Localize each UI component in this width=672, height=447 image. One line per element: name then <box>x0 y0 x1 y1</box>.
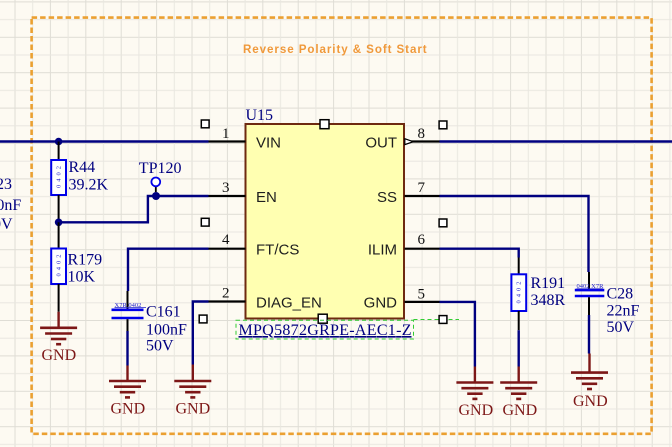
svg-text:GND: GND <box>459 402 494 419</box>
no-connect marker square B <box>201 218 209 226</box>
svg-text:100nF: 100nF <box>146 322 187 339</box>
svg-text:1: 1 <box>222 126 230 142</box>
ground under R191 <box>500 367 537 399</box>
ground under DIAG_EN <box>174 365 211 398</box>
svg-text:U15: U15 <box>246 107 274 124</box>
wire GND pin net <box>440 302 475 367</box>
pin 7 SS <box>405 180 440 196</box>
svg-text:TP120: TP120 <box>139 160 182 177</box>
svg-text:R191: R191 <box>531 275 566 292</box>
svg-text:3: 3 <box>222 180 230 196</box>
pin 8 OUT <box>405 126 440 145</box>
wire ILIM net <box>440 249 519 258</box>
capacitor C161 <box>112 291 147 331</box>
pin 1 VIN <box>209 126 246 142</box>
wire OUT net <box>440 140 672 142</box>
resistor R44 <box>51 142 66 223</box>
svg-text:4: 4 <box>222 232 230 248</box>
svg-text:GND: GND <box>573 393 608 410</box>
svg-text:2: 2 <box>222 286 230 302</box>
resistor R191 <box>511 258 526 331</box>
capacitor C28 <box>575 272 605 315</box>
svg-text:C23: C23 <box>0 176 12 193</box>
pin 2 DIAG_EN <box>209 286 246 302</box>
wire C161 to ground <box>126 331 128 366</box>
handle square top <box>320 120 329 129</box>
junction at R44 top <box>55 138 63 146</box>
svg-text:R44: R44 <box>69 159 96 176</box>
svg-text:VIN: VIN <box>256 135 281 152</box>
svg-text:SS: SS <box>377 189 397 206</box>
wire SS net <box>440 196 589 272</box>
no-connect marker square C <box>199 315 207 323</box>
wire DIAG_EN net <box>193 302 209 365</box>
svg-text:22nF: 22nF <box>607 303 640 320</box>
pin 3 EN <box>209 180 246 196</box>
ground under R179 <box>40 312 77 344</box>
svg-text:C28: C28 <box>607 286 634 303</box>
svg-text:ILIM: ILIM <box>368 242 397 259</box>
svg-text:8: 8 <box>418 126 426 142</box>
wire EN net: junction to TP and EN <box>59 196 209 222</box>
no-connect marker square D <box>439 121 447 129</box>
svg-text:DIAG_EN: DIAG_EN <box>256 295 322 312</box>
svg-text:10K: 10K <box>68 269 96 286</box>
svg-text:50V: 50V <box>607 319 635 336</box>
junction at TP120 <box>152 192 160 200</box>
svg-text:39.2K: 39.2K <box>69 177 109 194</box>
svg-text:FT/CS: FT/CS <box>256 242 299 259</box>
svg-text:Reverse Polarity & Soft Start: Reverse Polarity & Soft Start <box>243 43 428 56</box>
handle square bottom <box>318 314 327 323</box>
svg-text:6: 6 <box>418 232 426 248</box>
resistor R179 <box>51 222 66 311</box>
wire R191 to ground <box>518 330 520 366</box>
svg-text:C161: C161 <box>146 304 181 321</box>
svg-text:50V: 50V <box>146 338 174 355</box>
junction at R44/R179 <box>55 219 63 227</box>
wire VIN net horizontal <box>0 140 209 142</box>
svg-text:348R: 348R <box>531 292 566 309</box>
svg-text:GND: GND <box>503 402 538 419</box>
svg-text:100nF: 100nF <box>0 197 21 214</box>
pin 4 FT/CS <box>209 232 246 249</box>
svg-text:5: 5 <box>418 287 426 303</box>
svg-text:GND: GND <box>176 401 211 418</box>
ground under C28 <box>571 354 608 390</box>
test point TP120 <box>151 178 160 193</box>
wire FT/CS net <box>128 249 209 291</box>
svg-text:R179: R179 <box>68 252 103 269</box>
svg-text:EN: EN <box>256 189 277 206</box>
svg-text:GND: GND <box>364 295 398 312</box>
label MPQ5872GRPE-AEC1-Z <box>236 320 414 339</box>
pin 6 ILIM <box>405 232 440 249</box>
ground under pin 5 <box>456 367 493 399</box>
svg-text:50V: 50V <box>0 216 13 233</box>
no-connect marker square F <box>439 316 447 324</box>
ground under C161 <box>109 366 146 398</box>
svg-text:GND: GND <box>42 347 77 364</box>
IC U15 body <box>246 124 405 319</box>
no-connect marker square E <box>439 219 447 227</box>
svg-text:OUT: OUT <box>365 135 397 152</box>
svg-text:7: 7 <box>418 180 426 196</box>
wire C28 to ground <box>588 315 590 354</box>
pin 5 GND <box>405 287 440 303</box>
svg-text:GND: GND <box>111 401 146 418</box>
svg-text:MPQ5872GRPE-AEC1-Z: MPQ5872GRPE-AEC1-Z <box>239 322 412 339</box>
no-connect marker square A <box>201 120 209 128</box>
green dashed link to square <box>414 319 460 321</box>
